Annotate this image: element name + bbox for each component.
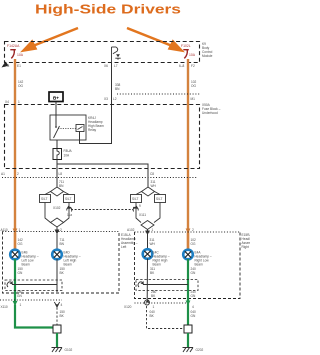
svg-text:BN: BN — [60, 242, 65, 246]
connector hook right — [138, 282, 142, 287]
wire relay to fuse F8UA — [56, 140, 58, 149]
fuse F142UA (highlighted) — [10, 50, 16, 59]
wire B+ to relay — [55, 102, 57, 128]
svg-text:G202: G202 — [196, 348, 204, 352]
svg-text:10A: 10A — [17, 53, 24, 57]
svg-text:E1: E1 — [17, 64, 21, 68]
svg-text:F2: F2 — [191, 64, 195, 68]
relay KR4J Headlamp High Beam Relay — [50, 115, 86, 140]
inline connector on left structure — [67, 207, 72, 211]
svg-text:G102: G102 — [65, 348, 73, 352]
wire into right high beam — [147, 234, 149, 250]
svg-text:OG: OG — [191, 84, 196, 88]
option box left-left — [40, 195, 51, 203]
green wire to G202 — [187, 333, 189, 347]
inline connector on right structure — [133, 207, 138, 211]
splice diamond left — [51, 187, 64, 196]
ground G202 — [183, 348, 194, 353]
headlamp assembly left (dashed box) — [3, 232, 120, 294]
svg-text:1: 1 — [20, 303, 22, 307]
green wire to G102 — [56, 333, 58, 347]
svg-text:4: 4 — [61, 303, 63, 307]
svg-text:S/LT: S/LT — [41, 197, 48, 201]
lamp E4B left low beam — [10, 250, 20, 260]
ground terminal box right — [184, 325, 192, 333]
svg-text:1: 1 — [18, 100, 20, 104]
wire to left high beam with connector arrow — [56, 227, 58, 231]
splice diamond right rejoin — [141, 221, 154, 230]
svg-text:10A: 10A — [189, 53, 196, 57]
fuse block X50A (dashed box) — [5, 105, 200, 169]
splice diamond left rejoin — [51, 218, 64, 227]
annotation arrow right — [127, 28, 182, 51]
svg-text:BN: BN — [59, 184, 64, 188]
svg-text:Beam: Beam — [195, 263, 204, 267]
option box right-left — [131, 195, 142, 203]
wire relay control from BCM to relay coil — [80, 63, 112, 144]
headlamp assembly right (dashed box) — [135, 232, 241, 299]
svg-text:2: 2 — [17, 172, 19, 176]
wires below boxes — [45, 203, 51, 223]
fuse F8UA 10A — [53, 149, 62, 160]
green arrow through box bottom — [186, 301, 191, 306]
left branch wires — [45, 192, 51, 195]
svg-text:L7: L7 — [114, 64, 118, 68]
ground wire left low beam (green) — [14, 259, 16, 302]
wire fuse output to both high beams — [57, 160, 148, 188]
svg-text:Beam: Beam — [153, 263, 162, 267]
svg-text:GN: GN — [18, 271, 23, 275]
wire orange left (142 OG) from F142UA to left low beam — [14, 59, 16, 250]
svg-text:A102: A102 — [127, 228, 135, 232]
power B+ — [49, 92, 63, 102]
wire into right low beam — [187, 233, 189, 250]
svg-text:X4: X4 — [5, 100, 9, 104]
svg-text:F142UA: F142UA — [7, 44, 20, 48]
svg-text:X120: X120 — [124, 305, 132, 309]
svg-text:BN: BN — [115, 87, 120, 91]
svg-text:M1: M1 — [191, 97, 196, 101]
svg-text:A1: A1 — [1, 172, 5, 176]
connector line X110 (dotted) — [0, 299, 62, 301]
svg-text:4: 4 — [192, 305, 194, 309]
svg-text:OG: OG — [18, 84, 23, 88]
svg-text:3–8: 3–8 — [4, 64, 10, 68]
connector circle right — [145, 300, 150, 305]
junction wire inside right sub box — [143, 284, 188, 286]
svg-text:High-Side Drivers: High-Side Drivers — [35, 2, 181, 17]
annotation arrow left — [24, 28, 79, 51]
svg-text:X110: X110 — [1, 305, 8, 309]
svg-text:L8: L8 — [59, 172, 63, 176]
lamp E4A right low beam — [183, 250, 193, 260]
wire orange right (102 OG) from F102L to right low beam — [187, 59, 189, 250]
dashed ground wire right high beam — [147, 306, 185, 329]
svg-text:WH: WH — [150, 242, 156, 246]
svg-text:Beam: Beam — [22, 263, 31, 267]
svg-text:X3: X3 — [104, 97, 108, 101]
svg-text:OG: OG — [18, 242, 23, 246]
wire into left low beam — [14, 233, 16, 250]
ground wire left high beam (black) — [56, 259, 58, 292]
svg-text:6–8: 6–8 — [179, 64, 185, 68]
svg-text:2: 2 — [192, 228, 194, 232]
svg-text:Module: Module — [202, 54, 213, 58]
connector hook left — [7, 282, 11, 287]
green arrow through X110 — [13, 301, 18, 306]
fuse F102L (highlighted) — [183, 50, 189, 59]
wire to right high beam with connector arrow — [147, 230, 149, 232]
lamp E4C right high beam — [143, 249, 153, 259]
svg-text:Underhood: Underhood — [202, 111, 218, 115]
connector line X3 (dotted) — [117, 93, 200, 95]
svg-text:Beam: Beam — [64, 263, 73, 267]
svg-text:B+: B+ — [53, 95, 59, 100]
svg-text:10A: 10A — [64, 154, 71, 158]
BCM high-side driver symbol — [112, 47, 121, 63]
sub connector box left (dashed) — [5, 280, 62, 291]
option box left-right — [64, 195, 75, 203]
green wire to ground junction — [15, 305, 53, 328]
splice merge into X110 — [54, 302, 59, 306]
junction wire inside sub box — [12, 284, 57, 286]
svg-text:11a: 11a — [67, 213, 72, 217]
svg-text:GN: GN — [17, 294, 22, 298]
option box right-right — [155, 195, 166, 203]
svg-text:GN: GN — [191, 294, 196, 298]
svg-text:L2: L2 — [113, 97, 117, 101]
svg-text:1: 1 — [152, 228, 154, 232]
dashed interconnect wire — [71, 209, 133, 211]
svg-text:X102: X102 — [53, 206, 61, 210]
svg-text:S/LT: S/LT — [65, 197, 72, 201]
svg-text:GN: GN — [191, 271, 196, 275]
connector arrows into headlamp boxes (orange wires) — [13, 229, 18, 234]
page continuation arrow at BCM corner — [2, 62, 9, 68]
svg-text:Right: Right — [242, 245, 250, 249]
splice diamond right — [142, 187, 155, 196]
connector line X120 (dotted) — [135, 302, 189, 304]
svg-text:X111: X111 — [139, 213, 146, 217]
wire into left high beam — [56, 234, 58, 250]
svg-text:X6: X6 — [104, 64, 108, 68]
svg-text:C8: C8 — [150, 172, 154, 176]
svg-text:GN: GN — [191, 314, 196, 318]
dashed ground wire from high beam — [56, 308, 58, 326]
svg-text:1: 1 — [153, 305, 155, 309]
module K9 Body Control Module (dashed box) — [5, 42, 200, 63]
lamp E4D left high beam — [52, 250, 62, 260]
svg-text:S/LT: S/LT — [156, 197, 163, 201]
svg-text:F8UA: F8UA — [64, 149, 73, 153]
svg-text:Left: Left — [121, 245, 126, 249]
ground terminal box left — [53, 325, 61, 333]
svg-text:F102L: F102L — [181, 44, 191, 48]
connector line X50A bottom (dotted) — [2, 177, 198, 179]
ground wire right low beam (green) — [187, 259, 189, 325]
sub connector box right (dashed) — [136, 280, 198, 291]
svg-text:WH: WH — [151, 184, 157, 188]
ground wire right high beam (black) — [146, 259, 148, 301]
svg-text:OG: OG — [191, 242, 196, 246]
svg-text:Relay: Relay — [88, 128, 97, 132]
svg-text:9: 9 — [139, 204, 141, 208]
svg-text:A110: A110 — [1, 228, 8, 232]
ground G102 — [52, 348, 63, 353]
svg-text:S/LT: S/LT — [132, 197, 139, 201]
